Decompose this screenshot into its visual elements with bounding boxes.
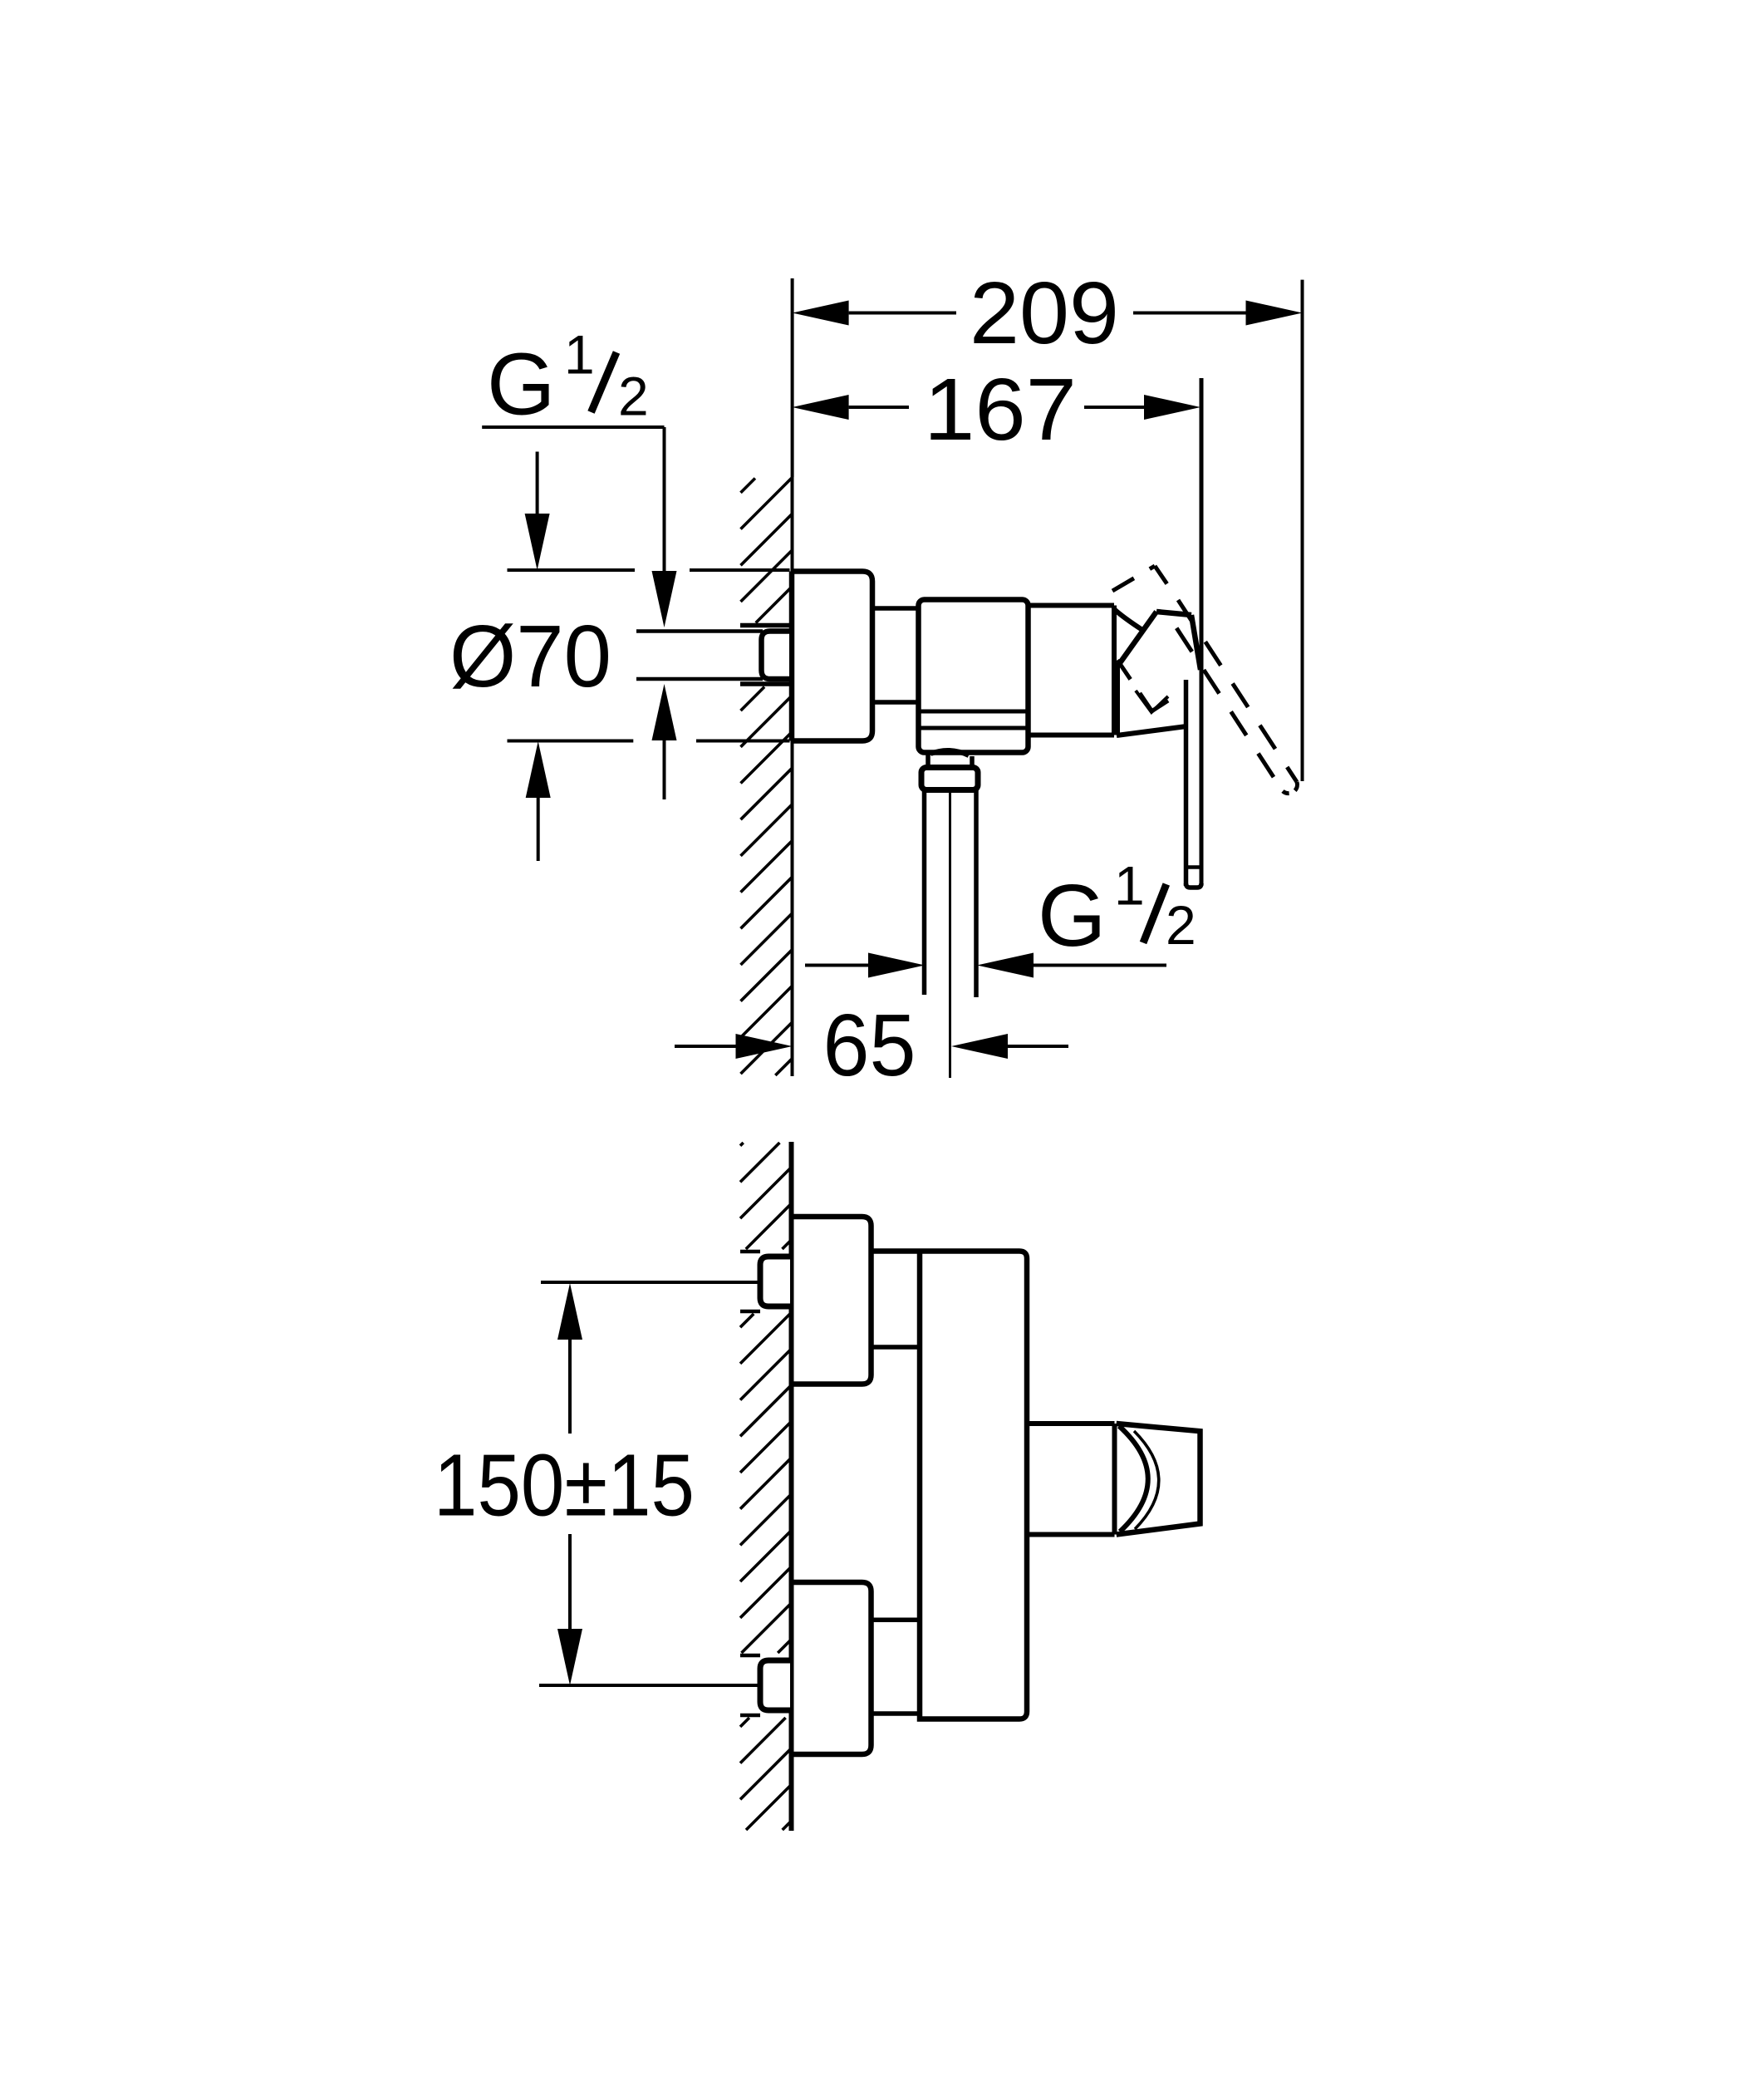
G1/2 top up arrow (652, 684, 677, 740)
outlet collar left side (926, 755, 930, 767)
handle cone left edge (1115, 665, 1120, 735)
neck between escutcheon and body, bottom line (872, 700, 919, 705)
150 down arrow shaft (568, 1534, 572, 1630)
dashed cone base corner (1151, 701, 1168, 711)
inlet nut at wall (762, 632, 790, 680)
svg-text:65: 65 (823, 996, 916, 1094)
G1/2 top down arrow (652, 571, 677, 627)
wall face line (top view) (791, 477, 794, 1076)
neck between escutcheon and body, top line (872, 606, 919, 611)
escutcheon flange (side view) (792, 572, 872, 741)
top mounting flange (791, 1217, 872, 1384)
bottom inlet nipple in wall (760, 1660, 790, 1710)
cone slot V mark (1136, 691, 1168, 712)
dimension 65 left-pointing arrow (951, 1034, 1008, 1059)
top inlet nipple in wall (760, 1257, 790, 1306)
bottom nipple pipe stub lower (740, 1714, 760, 1718)
extension line right for 209 (1301, 280, 1304, 781)
outlet collar right side (970, 756, 975, 767)
Ø70 extension line bottom right segment (696, 740, 790, 743)
bottom mounting flange (791, 1582, 872, 1754)
lever left edge (down position) (1184, 680, 1189, 886)
bottom nipple pipe stub upper (740, 1654, 760, 1658)
outlet hose nut (921, 768, 978, 790)
dome arc on valve end (1114, 609, 1142, 630)
Ø70 up arrow shaft (537, 796, 540, 861)
dimension 209 line right segment (1133, 312, 1246, 315)
body ring line 1 (919, 710, 1029, 714)
handle neck bottom line (front view) (1027, 1532, 1115, 1537)
handle cone bottom edge (1117, 726, 1186, 735)
G1/2 leader horizontal (482, 425, 664, 429)
bottom neck upper line (front view) (872, 1618, 921, 1623)
svg-text:2: 2 (1166, 894, 1196, 956)
Ø70 extension line bottom left segment (508, 740, 634, 743)
dashed cone upper-left edge (closed position) (1112, 566, 1155, 591)
knob dome arc thin (1134, 1431, 1159, 1529)
dimension 167 line left segment (849, 406, 909, 409)
handle cone top edge (solid, open position) (1156, 612, 1191, 615)
G1/2 bottom left-pointing arrow (977, 953, 1034, 978)
dimension 65 right-pointing arrow tail (675, 1045, 736, 1048)
Ø70 extension line top right segment (690, 568, 790, 572)
dashed cone right corner edge (1155, 566, 1169, 587)
svg-text:Ø70: Ø70 (449, 607, 611, 706)
dimension 65 left arrow tail (1008, 1045, 1068, 1048)
svg-text:G: G (487, 335, 555, 433)
G1/2 bottom right-pointing arrow tail (805, 964, 868, 967)
dashed lever upper edge (closed position) (1178, 600, 1297, 782)
Ø70 up arrow (526, 741, 551, 798)
knob dome arc thick (1119, 1426, 1148, 1532)
G1/2 inlet pipe bottom line (636, 677, 763, 681)
top nipple pipe stub lower (740, 1310, 760, 1314)
G1/2 top up arrow shaft (663, 740, 666, 799)
mixer body (cartridge housing) (919, 600, 1029, 753)
Ø70 extension line top left segment (508, 568, 636, 572)
dimension 167 left arrow (793, 395, 849, 420)
valve cylinder top edge (1029, 603, 1115, 608)
valve cylinder right edge (1112, 606, 1117, 735)
knob outline (front view) (1117, 1424, 1201, 1535)
top neck lower line (front view) (872, 1345, 921, 1350)
wall hole lower edge (top view) (740, 681, 790, 686)
150 up arrow shaft (568, 1338, 572, 1434)
dimension 209 left arrow (793, 301, 849, 326)
hose centre line (949, 791, 951, 1078)
150 extension line top (541, 1281, 758, 1284)
svg-text:209: 209 (970, 264, 1119, 362)
knob left edge (front view) (1112, 1424, 1117, 1535)
G1/2 inlet pipe top line (636, 629, 763, 633)
lever end cap line (1186, 865, 1202, 869)
bottom neck lower line (front view) (872, 1711, 921, 1716)
valve cylinder bottom edge (1029, 733, 1115, 738)
lever right edge / 167 extension line (1200, 378, 1204, 886)
handle cone left diagonal (1117, 612, 1156, 666)
dimension 167 line right segment (1084, 406, 1144, 409)
G1/2 bottom left arrow tail (1034, 964, 1166, 967)
dimension 167 right arrow (1144, 395, 1201, 420)
dashed cone base edge (1110, 649, 1151, 711)
svg-text:2: 2 (618, 366, 649, 427)
outlet dome arc under body (930, 750, 969, 755)
lever bottom end (1186, 883, 1202, 888)
svg-text:1: 1 (1114, 855, 1145, 917)
dashed lever lower edge (closed position) (1165, 610, 1283, 791)
svg-text:G: G (1038, 867, 1106, 965)
wall hatch lines (bottom view) (740, 1143, 792, 1830)
Ø70 down arrow shaft (536, 452, 539, 516)
wall face line (bottom view) (789, 1142, 794, 1831)
dashed lever end cap (1283, 782, 1297, 794)
extension line above wall for 209/167 (791, 278, 794, 477)
escutcheon left edge on wall (789, 572, 795, 741)
body ring line 2 (919, 726, 1029, 730)
svg-text:1: 1 (564, 324, 595, 386)
150 down arrow (557, 1629, 582, 1685)
dimension 65 right-pointing arrow (736, 1034, 793, 1059)
handle neck top line (front view) (1027, 1421, 1115, 1426)
150 extension line bottom (539, 1684, 758, 1687)
hose right edge (974, 790, 979, 998)
wall hole upper edge (top view) (740, 623, 790, 628)
G1/2 leader vertical (663, 427, 666, 572)
hose left edge (922, 790, 927, 996)
dimension 209 right arrow (1246, 301, 1303, 326)
wall hatch lines (top view) (741, 479, 793, 1076)
150 up arrow (557, 1283, 582, 1340)
body front view outline (872, 1252, 1028, 1719)
top nipple pipe stub upper (740, 1250, 760, 1254)
G1/2 bottom right-pointing arrow (868, 953, 925, 978)
Ø70 down arrow (525, 514, 550, 570)
dimension 209 line left segment (849, 312, 956, 315)
handle cone right edge (1191, 615, 1201, 670)
svg-text:167: 167 (924, 361, 1077, 459)
svg-text:150±15: 150±15 (434, 1437, 695, 1535)
